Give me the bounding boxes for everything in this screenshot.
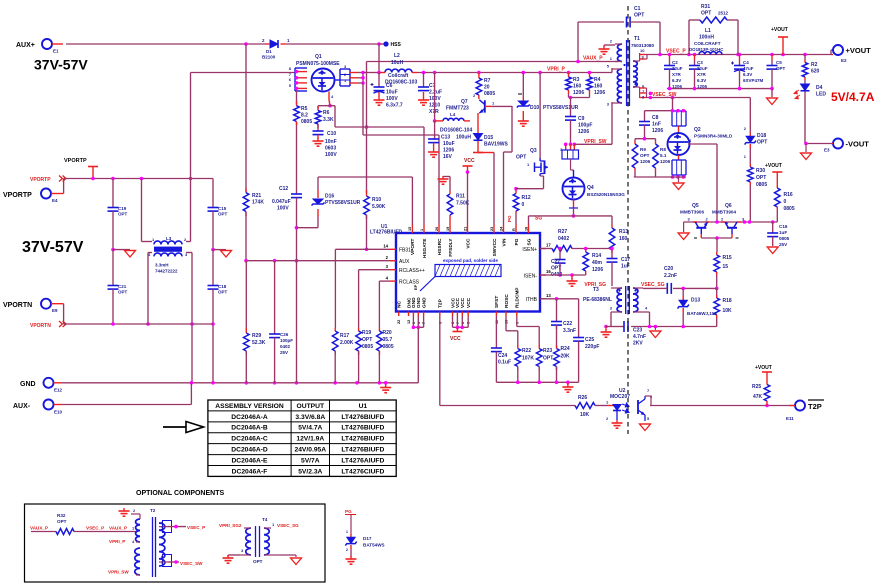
svg-text:5.90K: 5.90K — [372, 204, 386, 210]
svg-text:PTVS58VS1UR: PTVS58VS1UR — [543, 105, 579, 111]
svg-text:6SVP47M: 6SVP47M — [743, 78, 764, 83]
terminal E9 VPORTN — [3, 299, 64, 313]
svg-text:15: 15 — [408, 227, 412, 231]
U1 pin ISEN- — [524, 269, 552, 280]
svg-text:C5: C5 — [776, 60, 782, 65]
net label VSEC_SG opt — [277, 523, 299, 528]
svg-text:4: 4 — [689, 138, 692, 143]
resistor R24 20K — [554, 325, 570, 382]
inductor L2 10uH — [379, 53, 417, 86]
svg-text:X7R: X7R — [672, 72, 682, 77]
wire AUX+ rail — [66, 43, 379, 45]
arrow to DC2046A-B — [163, 422, 204, 433]
wire R27 to R13 col — [558, 247, 614, 251]
wire driver to R15 — [716, 238, 718, 252]
svg-text:DO1608C-104: DO1608C-104 — [440, 128, 472, 134]
terminal E10 AUX- — [13, 400, 63, 415]
svg-text:OPT: OPT — [757, 140, 767, 146]
wire T2P net — [440, 316, 575, 406]
capacitor C20 2.2nF — [661, 266, 677, 294]
svg-text:SG: SG — [526, 238, 532, 245]
svg-text:0.047uF: 0.047uF — [272, 199, 291, 205]
svg-text:C8: C8 — [652, 115, 659, 121]
svg-text:PG: PG — [345, 509, 352, 514]
capacitor C9 100pF — [565, 98, 592, 145]
wire HSSRC route — [363, 83, 439, 225]
svg-text:C18: C18 — [218, 284, 227, 289]
svg-text:3: 3 — [241, 548, 244, 553]
wire ISEN+ net — [540, 248, 552, 250]
net label VSEC_SW opt — [180, 561, 203, 566]
svg-text:6.3V: 6.3V — [672, 78, 681, 83]
svg-text:PSMN075-100MSE: PSMN075-100MSE — [296, 61, 340, 67]
ground ISEN- — [567, 275, 578, 286]
power VCC bottom — [450, 332, 462, 343]
svg-text:E11: E11 — [786, 416, 794, 421]
capacitor C16 1uF — [767, 222, 789, 247]
svg-text:R6: R6 — [323, 110, 330, 116]
svg-text:22uF: 22uF — [697, 66, 708, 71]
ground T1 aux — [599, 45, 616, 54]
svg-text:OPT: OPT — [253, 559, 263, 564]
node mid C19/C21 — [111, 248, 130, 252]
node HSS — [377, 41, 401, 48]
transistor Q7 FMMT723 — [446, 99, 512, 113]
wire comp bus — [496, 381, 578, 385]
wire Q1 out rail — [363, 72, 379, 74]
resistor R11 7.50K — [443, 177, 470, 226]
transistor Q6 MMBT3904 — [712, 203, 745, 238]
svg-text:0805: 0805 — [383, 344, 394, 350]
svg-text:160: 160 — [619, 236, 628, 242]
svg-text:6.3x7.7: 6.3x7.7 — [386, 103, 403, 109]
svg-text:6: 6 — [289, 77, 292, 82]
wire Q4 source SG — [572, 208, 576, 218]
transformer T4 — [240, 517, 279, 564]
svg-text:R4: R4 — [594, 77, 601, 83]
svg-text:ISEN-: ISEN- — [524, 274, 538, 280]
svg-text:OPT: OPT — [701, 11, 711, 17]
svg-text:5V/4.7A: 5V/4.7A — [298, 425, 322, 432]
svg-text:220pF: 220pF — [585, 344, 599, 350]
svg-text:2: 2 — [346, 548, 348, 552]
svg-text:1: 1 — [346, 530, 348, 534]
svg-text:1206: 1206 — [578, 129, 589, 135]
U1 exposed pad — [413, 258, 501, 291]
svg-text:VCC: VCC — [464, 158, 475, 164]
net label VPRI_SG — [584, 282, 606, 288]
transformer T1 750313080 — [607, 36, 655, 107]
net label VPORTP red — [30, 176, 66, 184]
svg-text:+VOUT: +VOUT — [846, 46, 872, 55]
svg-text:VSEC_SG: VSEC_SG — [641, 282, 665, 288]
ground chassis mid — [221, 251, 232, 258]
svg-text:OPT: OPT — [551, 266, 561, 272]
svg-text:VPRI_SW: VPRI_SW — [108, 570, 129, 575]
svg-text:HSS: HSS — [391, 42, 402, 48]
ground C13 — [428, 149, 439, 157]
wire Q1 drain merge — [358, 71, 365, 85]
svg-text:PG: PG — [507, 215, 512, 222]
optional components box — [25, 504, 326, 582]
svg-text:3: 3 — [386, 264, 389, 269]
svg-text:174K: 174K — [252, 200, 264, 206]
svg-text:VSEC_SW: VSEC_SW — [180, 561, 203, 566]
svg-text:C12: C12 — [279, 186, 288, 192]
svg-text:0603: 0603 — [325, 146, 336, 152]
svg-text:OPT: OPT — [218, 290, 228, 295]
svg-text:2: 2 — [610, 39, 613, 44]
svg-text:0805: 0805 — [756, 182, 767, 188]
svg-text:LT4276BIUFD: LT4276BIUFD — [341, 414, 384, 421]
svg-text:DC2046A-C: DC2046A-C — [231, 436, 268, 443]
resistor R30 OPT — [748, 164, 768, 222]
ground U2 LED — [612, 420, 623, 428]
svg-text:Q4: Q4 — [587, 185, 594, 191]
svg-text:L4: L4 — [450, 112, 456, 117]
svg-text:1: 1 — [527, 162, 530, 167]
svg-text:3: 3 — [610, 306, 613, 311]
svg-text:VPRI_SG: VPRI_SG — [584, 282, 606, 288]
svg-text:C27: C27 — [551, 259, 560, 265]
svg-text:2: 2 — [721, 217, 724, 222]
wire VSEC_SG rail — [673, 287, 717, 291]
net label VPRI_P 4 — [109, 539, 140, 545]
power tap VPORTP — [64, 158, 98, 180]
transistor Q3 OPT — [516, 73, 548, 189]
wire Q2 source to driver — [697, 144, 717, 222]
wire U1 VCC pins — [453, 316, 469, 332]
resistor R3 160 — [566, 73, 585, 97]
svg-text:0805: 0805 — [484, 91, 495, 97]
wire SWVCC route — [478, 153, 494, 226]
svg-text:10nF: 10nF — [325, 139, 337, 145]
svg-text:HSSRC: HSSRC — [437, 238, 443, 255]
svg-text:BAV19WS: BAV19WS — [484, 142, 508, 148]
svg-text:C25: C25 — [585, 337, 594, 343]
resistor R15 15 — [714, 252, 732, 288]
ground C6 — [374, 97, 385, 105]
svg-text:VAUX_P: VAUX_P — [109, 526, 127, 531]
capacitor C5 OPT — [767, 55, 786, 89]
svg-text:GND: GND — [20, 381, 36, 388]
U1 top pin names — [408, 225, 532, 258]
svg-text:ITHB: ITHB — [526, 297, 538, 303]
inductor L4 DO1608C-104 — [435, 112, 473, 134]
wire U1 GND pins — [412, 316, 424, 383]
capacitor C12 0.047uF — [272, 122, 302, 261]
svg-text:ISEN+: ISEN+ — [522, 247, 537, 253]
svg-text:47K: 47K — [753, 394, 763, 400]
svg-text:OPT: OPT — [640, 153, 650, 158]
wire VSEC_SW rail — [647, 92, 751, 100]
svg-text:C1: C1 — [634, 6, 641, 12]
capacitor C18 OPT — [208, 250, 228, 324]
svg-text:LED: LED — [816, 92, 826, 98]
resistor R17 2.00K — [332, 328, 353, 383]
svg-text:8: 8 — [289, 66, 292, 71]
svg-text:C17: C17 — [621, 257, 630, 263]
ground GND bus — [380, 385, 391, 393]
capacitor C13 10uF — [428, 121, 471, 160]
transistor Q2 PSMN3R4-30MLD — [668, 109, 733, 179]
svg-text:OPT: OPT — [57, 519, 67, 524]
ground T4 left — [223, 555, 234, 563]
net label VSEC_SW — [652, 92, 677, 98]
wire RCLASS net — [379, 281, 390, 328]
svg-text:R26: R26 — [578, 395, 587, 401]
svg-text:ROSC: ROSC — [504, 294, 510, 308]
wire HSGATE route — [335, 125, 424, 225]
svg-text:C15: C15 — [218, 206, 227, 211]
svg-text:SWVCC: SWVCC — [492, 238, 498, 256]
svg-text:-VOUT: -VOUT — [846, 140, 870, 149]
svg-text:BAT46WJ,115: BAT46WJ,115 — [687, 311, 717, 316]
svg-text:0402: 0402 — [558, 236, 569, 242]
transistor Q4 BSZ520N15NS3G — [560, 143, 625, 209]
svg-text:C3: C3 — [697, 60, 703, 65]
svg-text:R15: R15 — [723, 255, 732, 261]
capacitor C8 1nF — [639, 111, 673, 139]
svg-text:R3: R3 — [573, 77, 580, 83]
resistor R2 620 — [802, 55, 819, 81]
svg-text:C21: C21 — [118, 284, 127, 289]
capacitor C24 0.1uF — [491, 348, 511, 382]
svg-text:7: 7 — [161, 527, 163, 531]
svg-text:12V/1.9A: 12V/1.9A — [296, 436, 324, 443]
power VCC U1 — [463, 166, 473, 225]
svg-text:MMBT3904: MMBT3904 — [712, 210, 736, 215]
capacitor C7 2.2uF — [418, 73, 442, 116]
svg-text:T2: T2 — [150, 508, 156, 513]
svg-text:10uF: 10uF — [443, 141, 455, 147]
svg-text:C16: C16 — [779, 224, 788, 229]
diode D17 BAT54WS — [345, 515, 384, 558]
wire AUX+ to R21 — [245, 44, 247, 192]
U1 pin ITHB — [526, 293, 552, 303]
svg-text:2: 2 — [706, 217, 709, 222]
resistor R6 3.3K — [315, 106, 334, 128]
wire choke out to Q1 — [191, 73, 296, 242]
capacitor C22 3.3nF — [551, 299, 576, 334]
svg-text:E1: E1 — [53, 49, 59, 54]
capacitor C2 22uF — [664, 55, 683, 90]
wire RCLASS++ net — [359, 270, 390, 328]
svg-text:LT4276BIUFD: LT4276BIUFD — [341, 447, 384, 454]
svg-text:T4: T4 — [262, 517, 268, 522]
svg-text:100V: 100V — [386, 96, 398, 102]
svg-text:2: 2 — [262, 38, 265, 43]
svg-text:E9: E9 — [52, 308, 58, 313]
resistor R19 OPT — [356, 328, 374, 383]
svg-text:47uF: 47uF — [743, 66, 754, 71]
svg-text:DC2046A-A: DC2046A-A — [231, 414, 268, 421]
node VSEC_SG right — [715, 287, 719, 291]
svg-text:R21: R21 — [252, 193, 261, 199]
svg-text:R19: R19 — [362, 330, 371, 336]
svg-text:6.3V: 6.3V — [697, 78, 706, 83]
svg-text:OPT: OPT — [756, 175, 766, 181]
svg-text:3: 3 — [688, 217, 691, 222]
net label PG D17 — [345, 509, 356, 515]
wire T3 bottom row — [604, 312, 717, 328]
svg-text:8: 8 — [161, 521, 163, 525]
net label VSEC_P opt left — [86, 526, 104, 531]
U2 MOC207 optocoupler — [606, 388, 653, 421]
svg-text:10uH: 10uH — [391, 60, 404, 66]
svg-text:OPT: OPT — [543, 356, 553, 362]
svg-text:100V: 100V — [277, 206, 289, 212]
node dots VPRI rail — [422, 71, 592, 75]
svg-text:R8: R8 — [660, 147, 666, 152]
svg-text:DC2046A-E: DC2046A-E — [231, 457, 268, 464]
resistor R20 35.7 — [377, 328, 394, 383]
svg-text:20: 20 — [435, 227, 439, 231]
ground T3 right — [650, 327, 661, 338]
svg-text:OPT: OPT — [516, 155, 526, 161]
power +VOUT R16 — [765, 163, 782, 180]
resistor R32 OPT — [31, 513, 137, 535]
capacitor C23 4.7nF — [624, 321, 646, 347]
transistor Q5 MMBT3906 — [680, 203, 709, 238]
svg-text:5V/7A: 5V/7A — [301, 457, 320, 464]
svg-text:+VOUT: +VOUT — [771, 27, 788, 33]
ground C10 — [313, 138, 324, 146]
svg-text:B2100: B2100 — [262, 55, 276, 60]
isolation barrier dashed line — [627, 6, 629, 434]
svg-text:0402: 0402 — [280, 344, 291, 349]
svg-text:RCLASS++: RCLASS++ — [399, 268, 425, 274]
svg-text:1: 1 — [420, 229, 424, 231]
node dots GND bus — [190, 381, 388, 385]
wire T2 sec out top — [168, 525, 186, 529]
svg-text:100V: 100V — [325, 152, 337, 158]
wire ISEN- net — [540, 273, 586, 277]
svg-text:R20: R20 — [383, 330, 392, 336]
resistor R12 0 — [513, 187, 531, 225]
power VCC D15 — [464, 146, 483, 164]
svg-text:1: 1 — [272, 522, 275, 527]
wire sec gnd rail — [667, 87, 774, 97]
capacitor C21 OPT — [108, 250, 128, 324]
wire SFST net — [495, 316, 497, 348]
resistor R21 174K — [243, 188, 264, 216]
text OPTIONAL COMPONENTS — [136, 490, 224, 497]
ground secondary — [767, 98, 778, 105]
svg-text:C23: C23 — [633, 328, 642, 334]
wire R21 to AUX bus — [245, 212, 247, 261]
svg-text:13: 13 — [546, 293, 551, 298]
wire GND bus — [62, 382, 418, 384]
svg-text:14: 14 — [383, 244, 388, 249]
capacitor C27 OPT — [551, 249, 566, 279]
svg-text:E12: E12 — [54, 388, 63, 393]
svg-text:R25: R25 — [752, 384, 761, 390]
resistor R23 OPT — [536, 345, 553, 382]
svg-text:VPORT: VPORT — [410, 238, 416, 255]
svg-text:LT4276AIUFD: LT4276AIUFD — [341, 457, 384, 464]
svg-text:AUX-: AUX- — [13, 403, 31, 410]
wire D16 to VPORT pin — [318, 177, 412, 225]
resistor R31 OPT — [689, 4, 738, 55]
svg-text:1206: 1206 — [660, 159, 671, 164]
svg-text:6.3V: 6.3V — [743, 72, 752, 77]
svg-text:OPT: OPT — [218, 212, 228, 217]
svg-text:C20: C20 — [664, 266, 673, 272]
svg-text:ASSEMBLY VERSION: ASSEMBLY VERSION — [215, 403, 284, 410]
svg-text:R5: R5 — [301, 106, 308, 112]
wire C18 to GND bus — [211, 322, 215, 383]
svg-text:1206: 1206 — [573, 90, 584, 96]
svg-text:DC2046A-B: DC2046A-B — [231, 425, 268, 432]
svg-text:C24: C24 — [498, 353, 507, 359]
resistor R25 47K — [752, 365, 772, 406]
svg-text:5.1: 5.1 — [660, 153, 667, 158]
svg-text:2: 2 — [386, 255, 389, 260]
svg-text:22uF: 22uF — [672, 66, 683, 71]
ground chassis left — [125, 251, 136, 258]
svg-text:1: 1 — [287, 38, 290, 43]
svg-text:OPT: OPT — [362, 337, 372, 343]
svg-text:1: 1 — [152, 237, 155, 242]
svg-text:8.2: 8.2 — [301, 113, 308, 119]
inductor L1 100nH — [689, 28, 724, 55]
terminal E12 GND — [20, 378, 63, 393]
svg-text:25V: 25V — [280, 350, 288, 355]
inductor L3 744272222 — [142, 179, 193, 325]
svg-text:VPRI_P: VPRI_P — [547, 67, 565, 73]
svg-text:1206: 1206 — [594, 90, 605, 96]
svg-text:C19: C19 — [118, 206, 127, 211]
capacitor C4 47uF — [731, 55, 764, 89]
wire R26 to U2 — [595, 405, 608, 407]
svg-text:5: 5 — [647, 416, 650, 421]
net label VPRI_SW — [584, 139, 607, 145]
svg-text:2KV: 2KV — [633, 341, 643, 347]
svg-text:X7R: X7R — [697, 72, 707, 77]
wire T1 pin1 — [615, 61, 618, 63]
ground C16 — [767, 247, 778, 254]
power +VOUT top — [771, 27, 788, 55]
svg-text:VPRI_P: VPRI_P — [109, 539, 125, 544]
svg-text:C9: C9 — [578, 116, 585, 122]
wire T1 pin3 to VPRI_SW — [574, 102, 612, 144]
svg-text:OPT: OPT — [118, 290, 128, 295]
wire HSS to VPRI rail — [378, 44, 380, 73]
svg-text:2: 2 — [606, 416, 609, 421]
svg-text:3: 3 — [607, 102, 610, 107]
svg-text:VAUX_P: VAUX_P — [583, 56, 603, 62]
terminal E4 VPORTP — [3, 189, 64, 204]
resistor R8 5.1 — [653, 139, 671, 177]
svg-text:GND: GND — [416, 297, 422, 308]
svg-text:R2: R2 — [811, 62, 818, 68]
svg-text:D1: D1 — [266, 49, 272, 54]
svg-text:D18: D18 — [757, 133, 766, 139]
node VPORTN/choke — [146, 322, 194, 326]
svg-text:R32: R32 — [57, 513, 66, 518]
op-amp U1 LT4276BIUFD box — [370, 224, 540, 312]
net label VPORTN red — [30, 321, 66, 329]
svg-text:Q6: Q6 — [725, 203, 732, 209]
svg-text:2.2nF: 2.2nF — [664, 273, 677, 279]
svg-text:2: 2 — [744, 126, 747, 131]
ground C7 — [418, 97, 429, 105]
net label VAUX_P — [583, 56, 603, 62]
svg-text:19: 19 — [446, 227, 450, 231]
wire ITHB net — [540, 297, 579, 301]
svg-text:PTVS58VS1UR: PTVS58VS1UR — [325, 200, 361, 206]
